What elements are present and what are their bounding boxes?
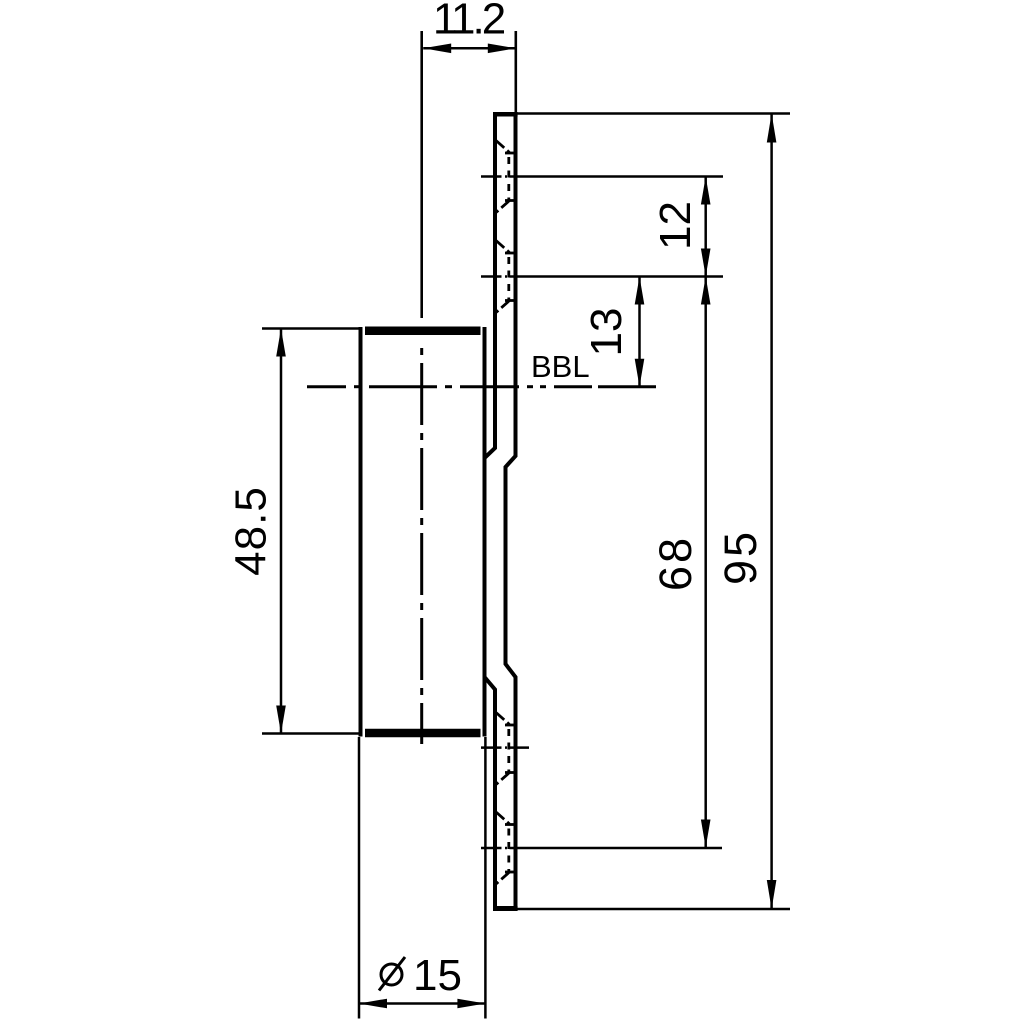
barrel bottom thick bar — [365, 729, 481, 738]
countersunk hole H2 (hidden lines) — [496, 241, 515, 313]
plate top extension line (95) — [516, 112, 790, 115]
hinge leaf right face — [506, 113, 516, 909]
hinge leaf top edge — [493, 112, 518, 117]
svg-text:BBL: BBL — [531, 349, 590, 384]
countersunk hole H4 (hidden lines) — [496, 812, 515, 884]
hole H3 center line — [481, 746, 529, 749]
barrel left edge — [359, 327, 363, 737]
BBL reference centerline — [307, 385, 656, 388]
countersunk hole H1 (hidden lines) — [496, 141, 515, 213]
hinge leaf bottom edge — [493, 906, 518, 911]
dimension 11.2 — [423, 0, 516, 112]
barrel vertical centerline (also 11.2 left extension) — [420, 31, 423, 318]
barrel right edge — [483, 327, 487, 737]
dimension 13 — [582, 277, 644, 387]
hinge leaf left face (upper section + upper jog) — [485, 113, 496, 459]
dimension diameter 15 — [359, 737, 485, 1019]
dimension 48.5 — [227, 329, 361, 734]
svg-text:12: 12 — [651, 201, 700, 250]
dimension 95 — [715, 114, 776, 910]
dimension 12 — [651, 177, 711, 277]
countersunk hole H3 (hidden lines) — [496, 713, 515, 785]
hole H1 center line — [481, 175, 723, 178]
svg-text:68: 68 — [650, 535, 701, 591]
barrel top thick bar — [365, 327, 481, 336]
diameter symbol — [381, 964, 402, 985]
dimension 68 — [650, 277, 711, 848]
svg-text:11.2: 11.2 — [433, 0, 505, 43]
svg-text:95: 95 — [715, 529, 766, 585]
svg-text:48.5: 48.5 — [227, 486, 276, 576]
svg-text:13: 13 — [582, 308, 631, 357]
hole H2 center line — [481, 275, 723, 278]
plate bottom extension line (95) — [516, 908, 790, 911]
svg-text:15: 15 — [413, 951, 462, 1000]
hinge leaf left face (lower jog + lower section) — [485, 677, 496, 909]
hole H4 center line — [481, 847, 722, 850]
